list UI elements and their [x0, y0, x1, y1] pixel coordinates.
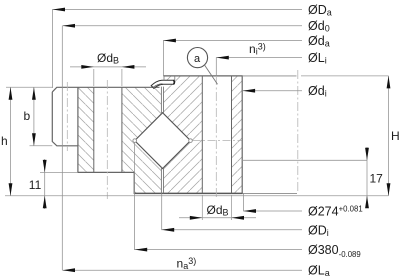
dimension H: [388, 76, 390, 196]
raceway centerline: [193, 140, 242, 142]
dimension h: [10, 87, 12, 195]
dimension Ø274: [244, 193, 303, 211]
dimension Øda: [163, 41, 302, 77]
dimension Ød0: [62, 26, 302, 270]
seal inner bend line: [153, 84, 163, 88]
seal end cap: [173, 80, 176, 84]
mounting block top edge: [242, 75, 296, 77]
gap between rings above roller: [161, 87, 163, 114]
svg-text:11: 11: [29, 178, 42, 192]
outer ring notch wall: [164, 76, 175, 80]
outer ring hatched section (between gap and hole): [164, 76, 203, 193]
mounting block step edge: [242, 159, 367, 161]
dimension Ødi leader: [243, 90, 302, 92]
svg-text:h: h: [1, 134, 8, 148]
inner ring bolt hole walls: [94, 87, 122, 172]
dimension b: [33, 87, 35, 146]
roller right vertex circle: [189, 139, 193, 143]
roller left vertex circle: [133, 139, 137, 143]
seal: [151, 80, 175, 88]
svg-text:a: a: [194, 53, 201, 65]
inner ring hatched section (between hole and gap): [122, 87, 161, 193]
outer ring hatched section (right of hole): [232, 76, 243, 193]
svg-text:17: 17: [370, 172, 384, 186]
extension line h/b top: [6, 86, 52, 88]
svg-text:H: H: [391, 129, 400, 143]
part bottom edge emphasis: [134, 192, 242, 194]
dimension 11: [44, 159, 46, 209]
mounting block pitch centerline: [297, 70, 299, 192]
bottom extension line: [5, 195, 389, 197]
outer bolt hole centerline: [215, 76, 217, 199]
outer ring bolt hole walls: [202, 76, 231, 193]
detail leader: [205, 65, 218, 84]
dimension ØDi: [162, 193, 302, 229]
gear pitch centerline: [66, 82, 68, 151]
mounting block bottom edge: [243, 192, 297, 194]
svg-text:Ødi: Ødi: [308, 84, 327, 99]
dimension ØLa: [63, 269, 303, 271]
dimension 17: [366, 147, 368, 208]
dimension ØLi: [216, 58, 302, 76]
inner bolt hole centerline: [106, 80, 108, 199]
roller (diamond): [135, 113, 191, 169]
svg-text:b: b: [24, 109, 31, 123]
outer ring outline: [164, 76, 243, 193]
detail circle a: [187, 48, 207, 68]
dimension Ø380: [135, 143, 303, 250]
H top extension: [301, 75, 389, 77]
svg-text:ØLi: ØLi: [308, 51, 327, 66]
inner ring hatched section (left of gear holes): [78, 87, 94, 172]
dimension ØDa: [53, 10, 303, 89]
extension line 11 top: [40, 171, 78, 173]
svg-text:ØDi: ØDi: [308, 223, 329, 238]
gap between rings below roller: [161, 167, 163, 193]
extension line b bottom: [30, 145, 53, 147]
inner ring outline: [52, 87, 242, 193]
